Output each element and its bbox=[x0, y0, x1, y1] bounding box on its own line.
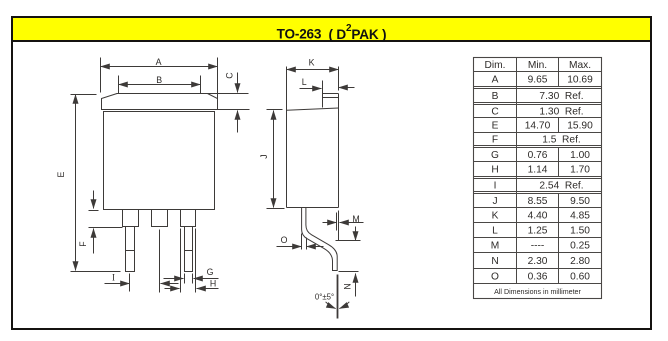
dimension G right arrow pointing left bbox=[194, 278, 219, 280]
dimension K arrow line bbox=[287, 69, 339, 71]
dimension F stub-bottom extension line bbox=[89, 227, 123, 229]
svg-text:9.50: 9.50 bbox=[570, 196, 590, 207]
dimension N upper arrow pointing down bbox=[355, 227, 357, 241]
dimension F lower arrow pointing up bbox=[93, 229, 95, 254]
front view: right lead wide stub bbox=[181, 210, 196, 227]
svg-text:M: M bbox=[352, 214, 359, 224]
side view: body/tab right edge bbox=[338, 94, 340, 208]
svg-text:G: G bbox=[491, 150, 499, 161]
dimension L extension line bbox=[322, 81, 324, 94]
svg-text:----: ---- bbox=[531, 241, 545, 252]
dimension B arrow line bbox=[119, 84, 201, 86]
table horizontal row lines bbox=[474, 71, 602, 73]
svg-text:N: N bbox=[342, 283, 352, 289]
svg-text:M: M bbox=[491, 241, 500, 252]
svg-text:4.85: 4.85 bbox=[570, 211, 590, 222]
svg-text:C: C bbox=[224, 72, 234, 79]
side view: tab step line bbox=[323, 97, 339, 99]
angle arc right with arrowhead bbox=[339, 302, 349, 309]
front view: molded plastic body outline bbox=[104, 112, 215, 210]
dimension L left arrow pointing right bbox=[300, 88, 322, 90]
dimension B left extension line bbox=[118, 76, 120, 94]
dimension A arrow line bbox=[101, 66, 218, 68]
dimension F body-bottom tick bbox=[89, 210, 99, 212]
svg-text:H: H bbox=[210, 278, 216, 288]
svg-text:I: I bbox=[494, 181, 497, 192]
dimension O left arrow pointing right bbox=[277, 246, 302, 248]
svg-text:4.40: 4.40 bbox=[528, 211, 548, 222]
dimension N lead-tip extension line bbox=[339, 271, 359, 273]
dimension J upper arrow pointing up bbox=[273, 111, 275, 151]
side view: lead outer surface bbox=[302, 208, 333, 271]
svg-text:1.14: 1.14 bbox=[528, 165, 548, 176]
svg-text:9.65: 9.65 bbox=[528, 75, 548, 86]
side view: tab left edge bbox=[322, 94, 324, 108]
svg-text:2.54 Ref.: 2.54 Ref. bbox=[539, 181, 583, 192]
dimension I left arrow pointing right bbox=[105, 283, 130, 285]
dimension H left extension line bbox=[180, 229, 182, 293]
svg-text:1.30 Ref.: 1.30 Ref. bbox=[539, 107, 583, 118]
front view: metal tab outline (chamfered corners) bbox=[102, 94, 218, 110]
svg-text:1.70: 1.70 bbox=[570, 165, 590, 176]
svg-text:F: F bbox=[492, 135, 498, 146]
dimension I right extension line (center lead center) bbox=[159, 230, 161, 293]
svg-text:Max.: Max. bbox=[569, 60, 591, 71]
dimension A left extension line bbox=[100, 58, 102, 93]
svg-text:A: A bbox=[156, 57, 162, 67]
yellow title bar: TO-263 ( D2PAK ) bbox=[13, 18, 650, 42]
svg-text:7.30 Ref.: 7.30 Ref. bbox=[539, 91, 583, 102]
dimension F upper arrow pointing down bbox=[93, 191, 95, 209]
dimension O right extension tick on lead face bbox=[306, 238, 308, 250]
dimension H right arrow pointing left bbox=[197, 288, 219, 290]
dimension L right arrow pointing left bbox=[339, 87, 355, 89]
front view: tab top edge with dimension C top extension bbox=[117, 93, 249, 95]
svg-text:L: L bbox=[302, 77, 307, 87]
dimension M body-edge extension line bbox=[338, 211, 340, 241]
svg-text:C: C bbox=[491, 107, 498, 118]
front view: right lead bend line bbox=[185, 250, 193, 252]
dimension M/N boundary horizontal line bbox=[336, 240, 361, 242]
svg-text:J: J bbox=[259, 154, 269, 158]
side view: lead inner surface bbox=[306, 208, 337, 271]
svg-text:0.60: 0.60 bbox=[570, 272, 590, 283]
front view: right lead narrow section bbox=[185, 227, 193, 272]
svg-text:G: G bbox=[207, 267, 214, 277]
dimension E upper arrow pointing up bbox=[75, 95, 77, 151]
side view: body bottom edge bbox=[287, 207, 339, 209]
svg-text:0.76: 0.76 bbox=[528, 150, 548, 161]
dimension N lower arrow pointing up bbox=[355, 274, 357, 297]
svg-text:B: B bbox=[492, 91, 499, 102]
front view: left lead narrow section bbox=[126, 227, 135, 272]
dimension C upper arrow pointing down bbox=[237, 73, 239, 93]
dimension J bottom extension tick bbox=[267, 208, 285, 210]
lead axis reference line bbox=[337, 275, 339, 319]
dimension M right arrow pointing left bbox=[340, 222, 364, 224]
svg-text:1.00: 1.00 bbox=[570, 150, 590, 161]
svg-text:1.25: 1.25 bbox=[528, 226, 548, 237]
dimension I left extension line (left lead center) bbox=[129, 274, 131, 292]
svg-text:Min.: Min. bbox=[528, 60, 547, 71]
svg-text:N: N bbox=[491, 256, 498, 267]
svg-text:0.36: 0.36 bbox=[528, 272, 548, 283]
side view: body left edge bbox=[286, 111, 288, 208]
front view: center lead stub (cut lead) bbox=[152, 210, 168, 227]
front view: left lead wide stub bbox=[123, 210, 139, 227]
svg-text:0.25: 0.25 bbox=[570, 241, 590, 252]
svg-text:14.70: 14.70 bbox=[525, 121, 551, 132]
dimension H left arrow pointing right bbox=[165, 288, 180, 290]
dimension O left extension tick on lead face bbox=[301, 234, 303, 250]
svg-text:0°±5°: 0°±5° bbox=[315, 292, 334, 301]
dimension M left arrow pointing right bbox=[323, 222, 337, 224]
svg-text:E: E bbox=[492, 121, 499, 132]
svg-text:1.50: 1.50 bbox=[570, 226, 590, 237]
svg-text:J: J bbox=[492, 196, 497, 207]
dimension E lower arrow pointing down bbox=[75, 201, 77, 271]
side view: tab top edge bbox=[323, 93, 339, 95]
dimension G left arrow pointing right bbox=[164, 278, 184, 280]
dimension J top extension line bbox=[267, 109, 283, 111]
angle arc left with arrowhead bbox=[326, 302, 336, 309]
svg-text:8.55: 8.55 bbox=[528, 196, 548, 207]
table outer border bbox=[474, 58, 602, 299]
svg-text:O: O bbox=[281, 235, 288, 245]
dimension H right extension line bbox=[195, 229, 197, 293]
svg-text:2.80: 2.80 bbox=[570, 256, 590, 267]
svg-text:10.69: 10.69 bbox=[567, 75, 593, 86]
svg-text:B: B bbox=[156, 75, 162, 85]
dimension M lead-face extension line bbox=[336, 213, 338, 231]
table column separator 2 (Min | Max), skipping merged Ref rows bbox=[558, 58, 560, 87]
svg-text:A: A bbox=[492, 75, 499, 86]
dimension E arrow shaft middle bbox=[75, 151, 77, 201]
dimension K left extension line bbox=[286, 67, 288, 111]
svg-text:Dim.: Dim. bbox=[485, 60, 506, 71]
svg-text:K: K bbox=[492, 211, 499, 222]
svg-text:H: H bbox=[491, 165, 498, 176]
front view: left lead bend line bbox=[126, 250, 135, 252]
dimension J lower arrow pointing down bbox=[273, 171, 275, 208]
svg-text:All Dimensions in millimeter: All Dimensions in millimeter bbox=[494, 288, 581, 296]
dimension G left extension line bbox=[184, 274, 186, 284]
svg-text:O: O bbox=[491, 272, 499, 283]
dimension K right extension line bbox=[338, 67, 340, 91]
dimension O right arrow pointing left bbox=[307, 246, 324, 248]
svg-text:L: L bbox=[492, 226, 498, 237]
dimension A right extension line bbox=[217, 58, 219, 99]
front view: tab bottom edge extension for dimension C bbox=[218, 109, 250, 111]
side view: body top edge (slanted) bbox=[287, 108, 339, 110]
table column separator 1 (Dim | Min) bbox=[516, 58, 518, 284]
side view: lead tip end face bbox=[333, 270, 338, 272]
dimension E top extension tick bbox=[71, 94, 97, 96]
svg-text:2.30: 2.30 bbox=[528, 256, 548, 267]
svg-text:K: K bbox=[309, 57, 315, 67]
dimension B right extension line bbox=[200, 76, 202, 94]
svg-text:15.90: 15.90 bbox=[567, 121, 593, 132]
svg-text:I: I bbox=[112, 272, 115, 282]
dimension J arrow shaft middle bbox=[273, 151, 275, 171]
dimension I right arrow pointing left bbox=[161, 283, 179, 285]
svg-text:F: F bbox=[78, 241, 88, 247]
dimension E bottom extension line bbox=[71, 271, 121, 273]
dimension G right extension line bbox=[192, 274, 194, 284]
svg-text:E: E bbox=[56, 171, 66, 177]
svg-text:1.5 Ref.: 1.5 Ref. bbox=[542, 135, 581, 146]
dimension C lower arrow pointing up bbox=[237, 111, 239, 133]
